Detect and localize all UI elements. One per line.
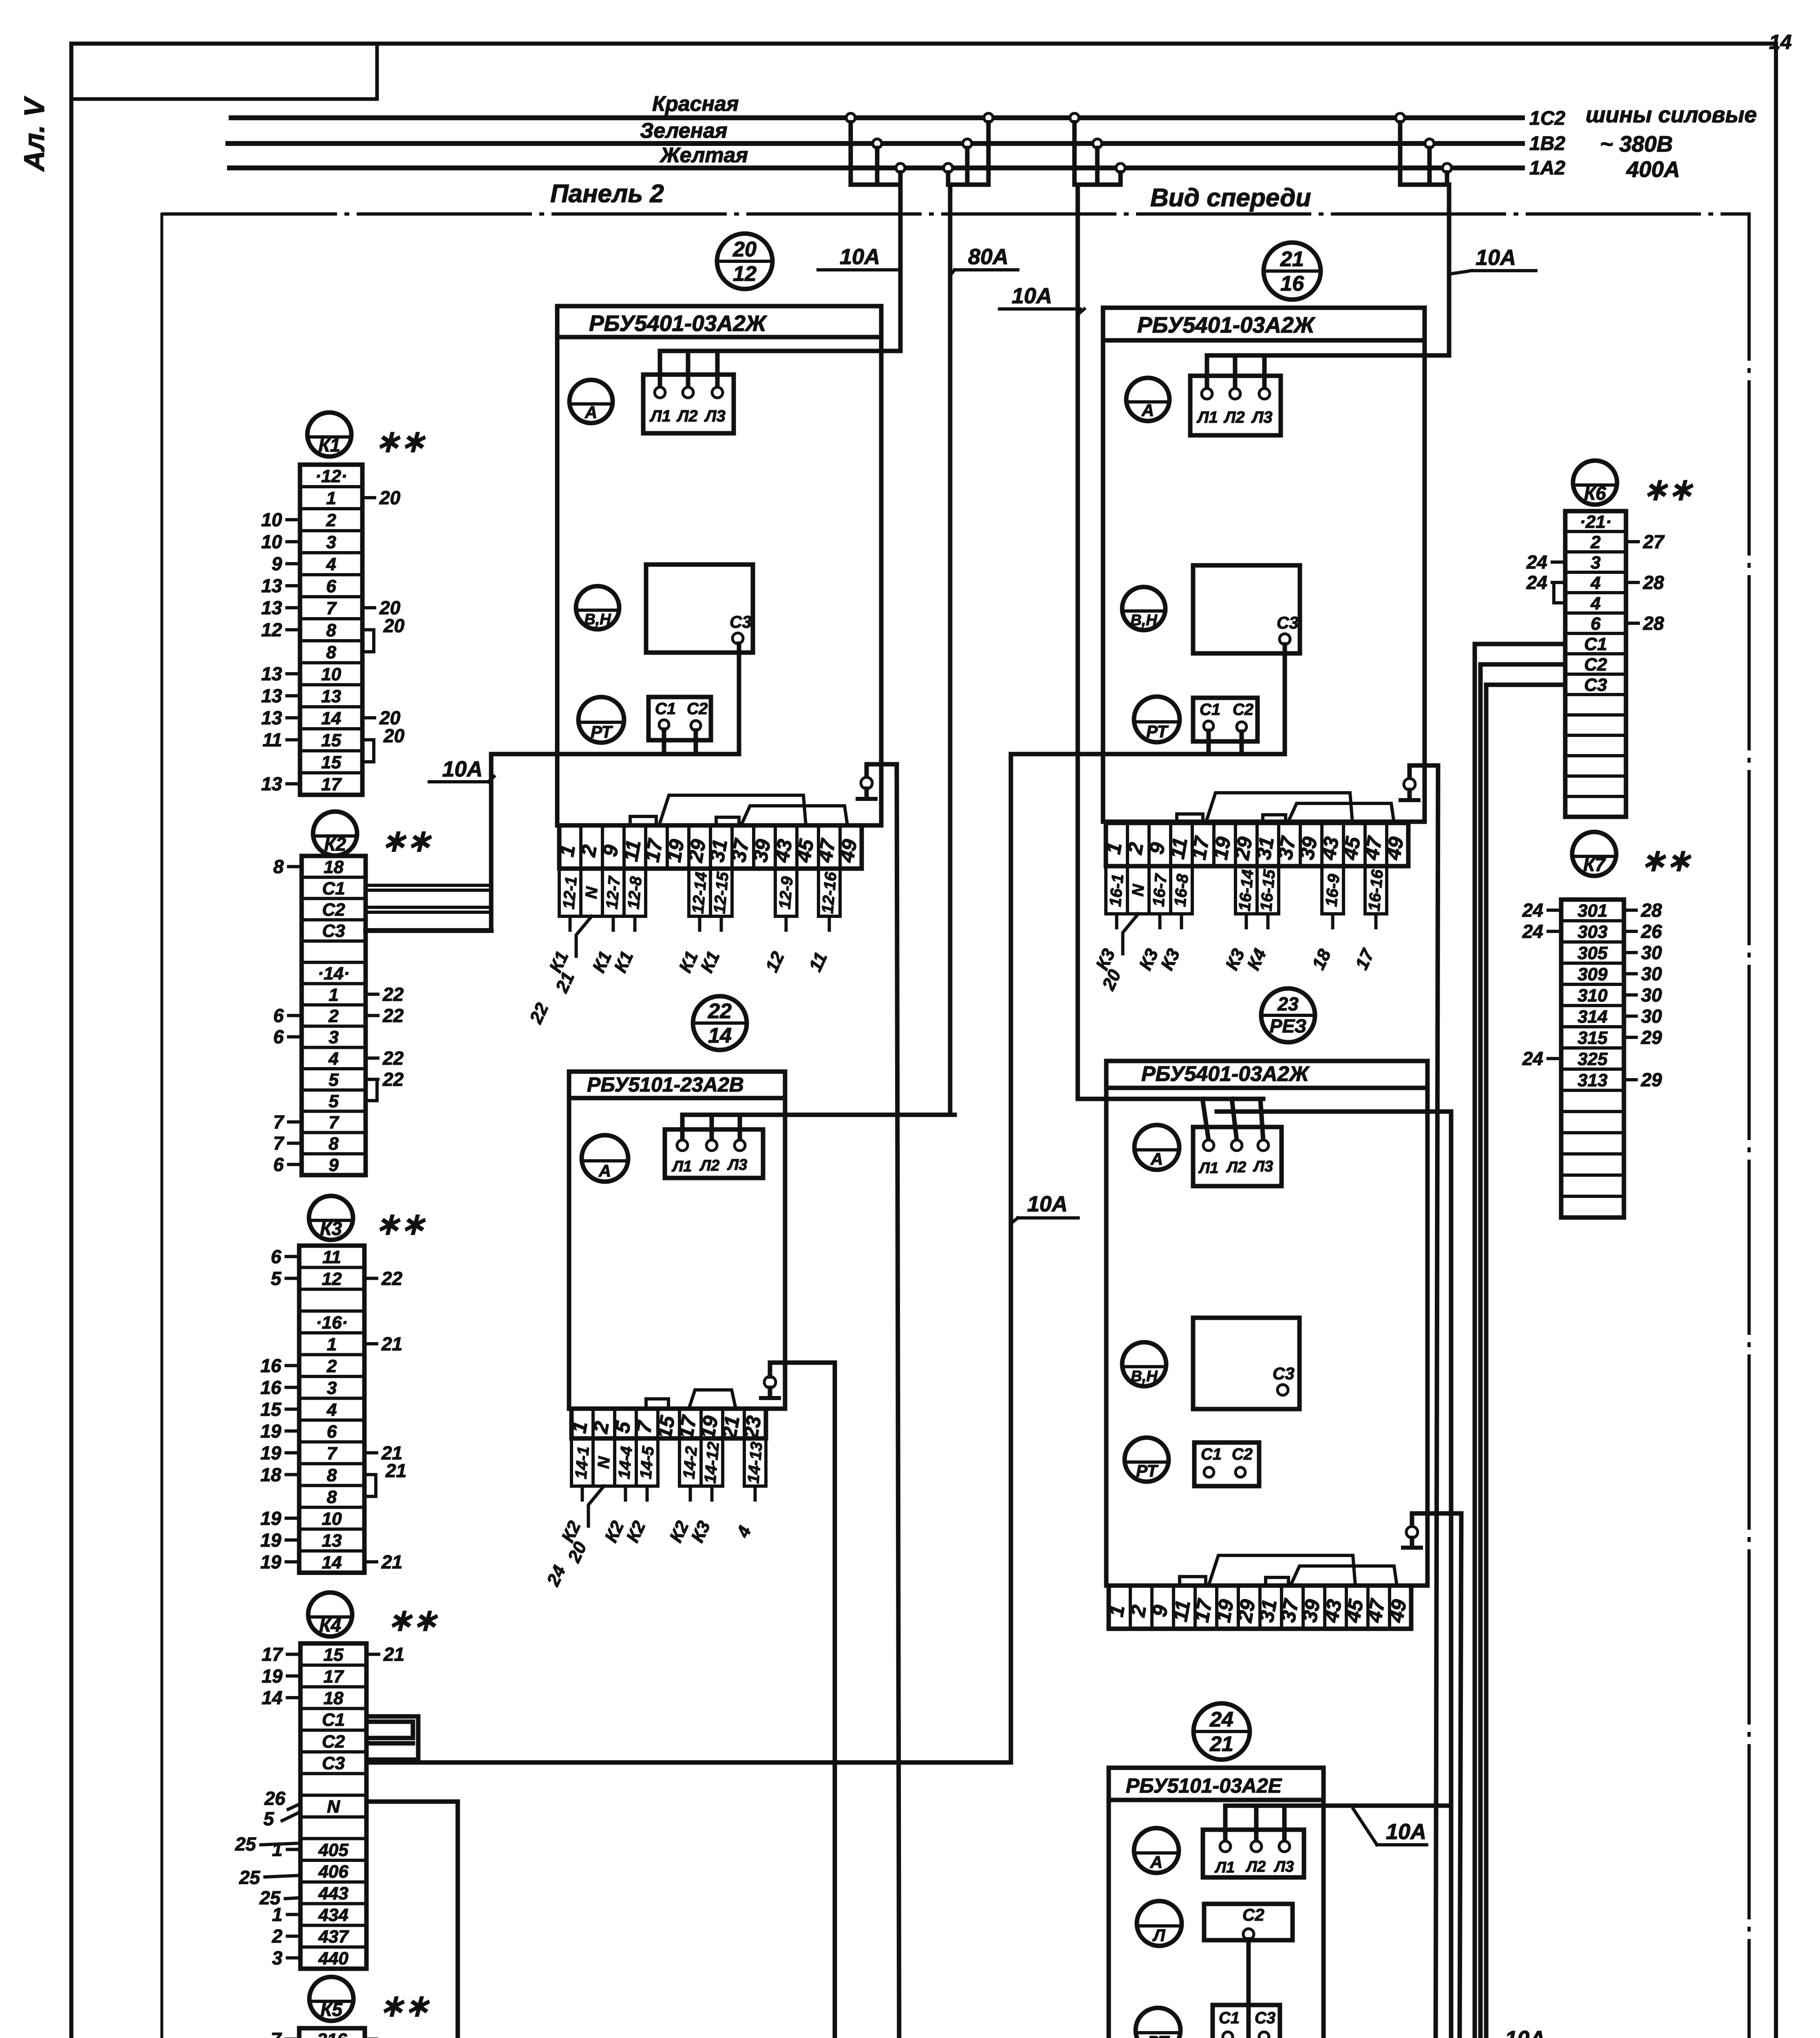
svg-text:14: 14 — [262, 1687, 282, 1708]
svg-text:10: 10 — [261, 531, 282, 552]
svg-text:17: 17 — [262, 1644, 284, 1665]
U20 contactor box with С3 — [646, 565, 753, 653]
svg-text:6: 6 — [271, 1246, 281, 1267]
svg-text:С3: С3 — [322, 921, 345, 941]
К7 right wire label 29 — [1624, 1027, 1662, 1048]
U22 line terminals Л1 Л2 Л3 — [665, 1115, 763, 1178]
top-left corner stamp box — [71, 44, 377, 99]
wire U20 earth to neutral bus — [897, 764, 900, 2038]
svg-text:3: 3 — [329, 1028, 338, 1048]
svg-text:РТ: РТ — [1146, 722, 1169, 741]
svg-text:Л1: Л1 — [671, 1158, 692, 1175]
svg-text:11: 11 — [322, 1247, 341, 1267]
U20 tag 12-7 — [602, 869, 624, 916]
К3 right wire label 22 — [364, 1268, 403, 1289]
svg-text:25: 25 — [239, 1867, 261, 1888]
svg-text:19: 19 — [260, 1442, 282, 1463]
svg-text:Л2: Л2 — [699, 1157, 719, 1174]
U23 contactor box with С3 — [1193, 1318, 1299, 1409]
device box U22 РБУ5101-23А2В — [569, 1072, 785, 1409]
U21 leader К3 — [1222, 914, 1249, 973]
svg-text:15: 15 — [324, 1645, 344, 1665]
svg-text:5: 5 — [329, 1070, 339, 1090]
svg-text:Л3: Л3 — [727, 1156, 747, 1173]
svg-text:РТ: РТ — [1136, 1461, 1158, 1480]
svg-text:12: 12 — [322, 1269, 342, 1289]
К6 left wire label 24 — [1526, 572, 1565, 593]
svg-text:14-2: 14-2 — [680, 1446, 701, 1480]
svg-text:7: 7 — [327, 1443, 338, 1463]
svg-text:16-14: 16-14 — [1235, 869, 1257, 912]
svg-text:А: А — [585, 403, 597, 422]
К6 right wire label 28 — [1626, 613, 1664, 634]
svg-text:∗∗: ∗∗ — [375, 1207, 426, 1241]
К3 left wire label 19 — [260, 1551, 299, 1573]
К1 right wire label 20 — [362, 707, 401, 728]
svg-text:Л3: Л3 — [704, 407, 726, 425]
U21 leader К3 — [1092, 914, 1119, 973]
svg-text:К7: К7 — [1583, 854, 1606, 875]
svg-text:С2: С2 — [1242, 1905, 1264, 1924]
svg-text:РТ: РТ — [591, 722, 613, 741]
svg-text:443: 443 — [318, 1884, 348, 1903]
svg-text:10: 10 — [261, 509, 282, 530]
svg-text:6: 6 — [273, 1154, 284, 1175]
К3 left wire label 18 — [260, 1464, 299, 1485]
svg-text:·21·: ·21· — [1580, 512, 1611, 532]
К1 left wire label 9 — [271, 553, 300, 574]
U22 earthing contact — [761, 1363, 779, 1398]
svg-text:15: 15 — [321, 752, 341, 772]
svg-text:13: 13 — [261, 597, 282, 618]
K4 left labels 25 long dashes — [235, 1833, 300, 1855]
wires K4 С1 С2 staircase — [366, 1716, 418, 1760]
svg-text:20: 20 — [732, 238, 757, 261]
svg-text:·16·: ·16· — [316, 1312, 348, 1332]
U21 tag 16-8 — [1171, 866, 1192, 914]
U22 tag 14-4 — [615, 1438, 636, 1486]
U20 meter В,Н — [576, 586, 619, 629]
U22 leader К3 — [687, 1486, 714, 1546]
К7 right wire label 30 — [1624, 963, 1662, 984]
svg-text:Л3: Л3 — [1251, 408, 1273, 426]
terminal block К7 body — [1561, 900, 1624, 1218]
wire U23 earth to neutral bus — [1459, 1513, 1461, 2038]
svg-text:К3: К3 — [320, 1218, 342, 1239]
svg-text:С3: С3 — [1584, 675, 1607, 695]
svg-text:С3: С3 — [1255, 2009, 1275, 2027]
svg-text:А: А — [598, 1161, 611, 1180]
svg-text:12-7: 12-7 — [603, 875, 624, 910]
К7 left wire label 24 — [1522, 921, 1561, 942]
svg-text:13: 13 — [261, 575, 282, 596]
svg-text:·12·: ·12· — [315, 466, 347, 486]
svg-text:49: 49 — [1384, 1598, 1411, 1625]
svg-text:14: 14 — [322, 1553, 342, 1573]
U20 leader К1 — [589, 916, 615, 976]
svg-text:8: 8 — [329, 1134, 339, 1154]
К7 right wire label 30 — [1624, 942, 1662, 963]
К4 left wire label 1 — [272, 1904, 300, 1925]
К3 jumper bracket rows 8/8 — [368, 1460, 406, 1497]
svg-text:1А2: 1А2 — [1529, 157, 1565, 179]
svg-text:3: 3 — [1591, 553, 1600, 573]
К3 left wire label 19 — [260, 1508, 299, 1529]
U21 tag 16-14 — [1235, 866, 1257, 914]
U20 leader К1 — [545, 916, 572, 976]
svg-text:5: 5 — [329, 1091, 339, 1111]
К2 left wire label 8 — [273, 856, 302, 877]
U21 leader К3 — [1157, 914, 1184, 973]
svg-text:В,Н: В,Н — [1131, 1368, 1158, 1385]
К7 right wire label 30 — [1624, 984, 1662, 1006]
К1 left wire label 13 — [261, 707, 300, 728]
svg-text:4: 4 — [1590, 573, 1600, 593]
U21 leader К4 — [1243, 914, 1270, 973]
U22 leader К2 — [601, 1486, 628, 1546]
svg-text:13: 13 — [261, 685, 282, 706]
U20 tag 12-1 — [559, 869, 581, 916]
svg-text:309: 309 — [1577, 964, 1608, 984]
svg-text:22: 22 — [382, 1048, 404, 1069]
svg-text:10А: 10А — [1476, 245, 1516, 270]
К2 left wire label 6 — [273, 1005, 302, 1026]
svg-text:Панель 2: Панель 2 — [550, 180, 664, 208]
U21 tag 16-1 — [1106, 866, 1127, 914]
terminal block К7 symbol circle — [1572, 832, 1616, 876]
svg-text:С1: С1 — [1200, 701, 1220, 719]
svg-text:1: 1 — [326, 488, 336, 508]
svg-text:Л1: Л1 — [1198, 1160, 1218, 1177]
svg-text:С2: С2 — [1232, 1445, 1253, 1463]
U22 terminal strip — [567, 1409, 766, 1441]
U22 tag 14-12 — [701, 1438, 723, 1486]
svg-text:13: 13 — [321, 686, 341, 706]
svg-text:С2: С2 — [1584, 655, 1607, 675]
wire K4 N to neutral bus — [366, 1802, 458, 2038]
svg-text:21: 21 — [1280, 247, 1304, 271]
К3 left wire label 5 — [271, 1268, 299, 1289]
svg-text:14: 14 — [708, 1024, 732, 1048]
svg-text:С2: С2 — [1233, 701, 1253, 719]
terminal block К2 symbol circle — [313, 812, 357, 856]
U21 earthing contact — [1401, 765, 1438, 800]
svg-text:5: 5 — [271, 1268, 282, 1289]
svg-text:21: 21 — [383, 1644, 404, 1665]
К3 left wire label 16 — [260, 1377, 299, 1398]
U20 relay РТ — [578, 697, 624, 743]
svg-text:325: 325 — [1577, 1049, 1608, 1069]
svg-text:30: 30 — [1641, 1006, 1662, 1027]
К2 right wire label 22 — [366, 1069, 404, 1090]
svg-text:N: N — [1129, 883, 1147, 897]
svg-text:22: 22 — [708, 999, 732, 1023]
svg-text:21: 21 — [385, 1460, 406, 1481]
svg-text:2: 2 — [326, 510, 336, 530]
svg-text:29: 29 — [1641, 1069, 1662, 1090]
svg-text:4: 4 — [328, 1049, 338, 1069]
U22 leader К2 — [558, 1486, 585, 1546]
К4 left wire label 2 — [271, 1926, 300, 1947]
fuse label 10А (U21 C drop) — [1012, 1192, 1078, 1223]
jumper links — [630, 816, 656, 825]
fuse label 80А (group2) — [950, 245, 1018, 276]
svg-text:305: 305 — [1577, 943, 1608, 963]
svg-text:Л2: Л2 — [1245, 1858, 1266, 1875]
svg-text:16-9: 16-9 — [1322, 873, 1343, 907]
svg-text:26: 26 — [1641, 921, 1662, 942]
svg-text:49: 49 — [835, 838, 861, 865]
U23 С1 С2 terminals — [1194, 1442, 1259, 1486]
U21 С1 С2 terminals — [1193, 698, 1257, 741]
fuse label 10А (group4) — [1450, 245, 1536, 274]
svg-text:19: 19 — [260, 1551, 282, 1573]
svg-text:28: 28 — [1643, 613, 1664, 634]
wires С1 С2 down — [1207, 731, 1211, 754]
svg-text:19: 19 — [260, 1529, 282, 1551]
power bus Желтая — [229, 165, 1522, 170]
fuse label 10А (K6 bundle) — [1480, 2027, 1553, 2038]
svg-text:К5: К5 — [320, 1999, 343, 2020]
svg-text:21: 21 — [381, 1333, 402, 1354]
U21 leader 20 — [1098, 914, 1138, 993]
svg-text:16-16: 16-16 — [1365, 869, 1387, 912]
terminal block К2 body — [302, 856, 366, 1175]
К1 left wire label 10 — [261, 509, 300, 530]
svg-text:С2: С2 — [322, 900, 345, 920]
U23 meter В,Н — [1122, 1342, 1166, 1386]
svg-text:9: 9 — [271, 553, 282, 574]
svg-text:12: 12 — [261, 619, 282, 640]
svg-text:24: 24 — [1522, 900, 1543, 921]
power bus Зеленая — [228, 141, 1522, 146]
U21 terminal strip — [1102, 823, 1408, 866]
svg-text:7: 7 — [271, 2029, 282, 2038]
svg-text:С2: С2 — [322, 1731, 345, 1751]
svg-text:С1: С1 — [1584, 634, 1607, 654]
U23 output wire to U24 — [1217, 1109, 1451, 1114]
svg-text:14-13: 14-13 — [744, 1441, 766, 1484]
К1 left wire label 10 — [261, 531, 300, 552]
svg-text:16-8: 16-8 — [1171, 873, 1192, 907]
device position circle 22/14 — [693, 996, 747, 1050]
svg-text:301: 301 — [1577, 901, 1607, 921]
fuse label 10А (group3) — [999, 284, 1084, 314]
svg-text:24: 24 — [1522, 921, 1543, 942]
svg-text:Вид спереди: Вид спереди — [1150, 184, 1311, 212]
К1 jumper bracket rows 15/15 — [366, 725, 405, 762]
U22 leader 20 — [564, 1486, 604, 1566]
svg-text:15: 15 — [260, 1398, 282, 1420]
svg-text:∗∗: ∗∗ — [379, 1989, 430, 2023]
svg-text:8: 8 — [327, 1465, 337, 1485]
К1 jumper bracket rows 8/8 — [366, 615, 405, 652]
wire С2 down — [1246, 1939, 1251, 2038]
svg-text:12-15: 12-15 — [710, 871, 732, 915]
wire feed to U22 (from 80А drop) — [682, 1113, 955, 1117]
svg-text:Зеленая: Зеленая — [640, 119, 728, 143]
device box U24 РБУ5101-03А2Е — [1109, 1768, 1324, 2038]
svg-text:В,Н: В,Н — [584, 611, 611, 628]
svg-text:440: 440 — [318, 1948, 349, 1968]
wire feed to U21 — [1207, 185, 1449, 355]
svg-text:314: 314 — [1577, 1007, 1607, 1027]
svg-text:18: 18 — [260, 1464, 282, 1485]
svg-text:Л1: Л1 — [1214, 1859, 1235, 1876]
terminal block К3 symbol circle — [309, 1196, 353, 1240]
svg-text:12: 12 — [733, 262, 757, 286]
wire U21 C-collector to K4 via left drop — [1011, 754, 1285, 1762]
svg-text:19: 19 — [260, 1508, 282, 1529]
К3 right wire label 21 — [364, 1333, 402, 1354]
svg-text:14-5: 14-5 — [637, 1445, 657, 1480]
U20 tag 12-15 — [710, 869, 732, 916]
svg-text:∗∗: ∗∗ — [1643, 472, 1694, 506]
svg-text:10: 10 — [321, 664, 341, 684]
svg-text:16: 16 — [1280, 272, 1304, 296]
svg-text:К6: К6 — [1584, 483, 1606, 504]
svg-text:2: 2 — [326, 1356, 337, 1376]
power bus Красная — [231, 115, 1522, 120]
svg-text:13: 13 — [261, 707, 282, 728]
U23 relay РТ — [1125, 1438, 1169, 1482]
bus tap group 1 — [846, 113, 905, 351]
svg-text:14-12: 14-12 — [701, 1441, 723, 1484]
svg-text:РБУ5401-03А2Ж: РБУ5401-03А2Ж — [589, 311, 768, 336]
svg-text:7: 7 — [273, 1112, 285, 1133]
svg-text:9: 9 — [329, 1155, 339, 1175]
U22 tag 14-1 — [571, 1438, 593, 1486]
svg-text:11: 11 — [263, 729, 282, 750]
terminal block К5 body — [299, 2028, 365, 2038]
К4 left wire label 17 — [262, 1644, 300, 1665]
svg-text:17: 17 — [321, 774, 342, 794]
K4 left labels 26/5 at N — [263, 1788, 300, 1829]
U21 tag 16-15 — [1257, 866, 1279, 914]
svg-text:С3: С3 — [322, 1753, 345, 1773]
svg-text:15: 15 — [321, 730, 341, 750]
К2 right wire label 22 — [366, 984, 404, 1005]
svg-text:Л: Л — [1152, 1926, 1166, 1945]
U24 С1 С3 terminals — [1213, 2005, 1280, 2038]
U24 ammeter A — [1134, 1828, 1179, 1873]
svg-text:4: 4 — [1590, 593, 1600, 613]
svg-text:12-16: 12-16 — [818, 871, 840, 915]
svg-text:·14·: ·14· — [318, 964, 349, 984]
U24 line terminals Л1 Л2 Л3 — [1203, 1806, 1304, 1877]
svg-text:С1: С1 — [655, 700, 676, 718]
terminal block К6 body — [1565, 511, 1626, 817]
svg-text:30: 30 — [1641, 984, 1662, 1006]
device box U21 РБУ5401-03А2Ж — [1103, 308, 1425, 822]
svg-text:10А: 10А — [1386, 1820, 1426, 1844]
К4 right wire label 21 — [366, 1644, 404, 1665]
svg-text:16-7: 16-7 — [1149, 873, 1170, 907]
svg-text:∗∗: ∗∗ — [375, 424, 426, 458]
U23 line terminals Л1 Л2 Л3 — [1193, 1099, 1282, 1186]
svg-text:В,Н: В,Н — [1130, 612, 1158, 629]
svg-text:С3: С3 — [1277, 613, 1299, 632]
terminal block К6 symbol circle — [1573, 461, 1617, 505]
U23 ammeter A — [1134, 1125, 1179, 1170]
device position circle 20/12 — [717, 234, 772, 289]
U20 tag N — [581, 869, 602, 916]
svg-text:А: А — [1141, 401, 1154, 420]
svg-text:Л1: Л1 — [649, 407, 671, 425]
svg-text:12-8: 12-8 — [624, 876, 645, 910]
svg-text:21: 21 — [381, 1551, 402, 1573]
svg-text:N: N — [327, 1797, 340, 1817]
svg-text:25: 25 — [235, 1833, 257, 1855]
svg-text:25: 25 — [259, 1887, 281, 1908]
U21 tag 16-9 — [1322, 866, 1343, 914]
U20 line terminals Л1 Л2 Л3 — [643, 351, 734, 433]
svg-text:10А: 10А — [840, 245, 880, 269]
svg-text:Л3: Л3 — [1253, 1158, 1273, 1175]
jumper links — [1177, 814, 1203, 823]
К2 left wire label 7 — [273, 1112, 302, 1133]
svg-text:13: 13 — [261, 773, 282, 794]
panel 2 boundary (dash-dot) — [162, 214, 1749, 2038]
U23 earthing contact — [1403, 1513, 1461, 1548]
К1 left wire label 13 — [261, 597, 300, 618]
К1 right wire label 20 — [362, 487, 401, 508]
U21 leader К3 — [1135, 914, 1162, 973]
К7 left wire label 24 — [1522, 1048, 1561, 1069]
svg-text:19: 19 — [262, 1665, 283, 1687]
К3 left wire label 19 — [260, 1442, 299, 1463]
svg-text:20: 20 — [383, 615, 405, 636]
svg-text:2: 2 — [328, 1006, 339, 1026]
wire feed to U23 — [1078, 1097, 1263, 1101]
К2 left wire label 6 — [273, 1026, 302, 1048]
U20 tag 12-16 — [818, 869, 840, 916]
svg-text:29: 29 — [1641, 1027, 1662, 1048]
svg-text:Л2: Л2 — [1226, 1159, 1246, 1176]
svg-text:14-1: 14-1 — [572, 1446, 593, 1480]
svg-text:Желтая: Желтая — [659, 143, 748, 167]
svg-text:∗∗: ∗∗ — [381, 824, 432, 858]
svg-text:6: 6 — [326, 576, 336, 596]
svg-text:7: 7 — [326, 598, 337, 618]
U20 С1 С2 terminals — [649, 697, 711, 740]
К4 left wire label 1 — [272, 1839, 300, 1860]
svg-text:8: 8 — [327, 1487, 337, 1507]
svg-text:12-9: 12-9 — [776, 876, 796, 910]
svg-text:РБУ5401-03А2Ж: РБУ5401-03А2Ж — [1141, 1062, 1310, 1086]
К6 right wire label 27 — [1626, 531, 1665, 552]
svg-text:С1: С1 — [1219, 2009, 1240, 2027]
U20 leader К1 — [675, 916, 702, 976]
svg-text:20: 20 — [379, 487, 401, 508]
svg-text:N: N — [582, 886, 601, 900]
svg-text:6: 6 — [273, 1005, 284, 1026]
К2 jumper bracket rows 5/5 — [369, 1079, 377, 1101]
wire С3 down — [1283, 644, 1287, 754]
U23 terminal strip — [1105, 1586, 1411, 1629]
svg-text:5: 5 — [263, 1808, 274, 1829]
wires С1 С2 down — [662, 730, 666, 754]
svg-text:27: 27 — [1643, 531, 1665, 552]
К1 left wire label 12 — [261, 619, 300, 640]
U20 terminal strip — [555, 825, 862, 869]
svg-text:14: 14 — [1769, 31, 1792, 53]
U20 leader 11 — [805, 916, 831, 975]
U22 tag 14-13 — [744, 1438, 766, 1486]
terminal block К5 symbol circle — [309, 1977, 353, 2021]
svg-text:Л1: Л1 — [1196, 408, 1218, 426]
К2 left wire label 7 — [273, 1133, 302, 1154]
